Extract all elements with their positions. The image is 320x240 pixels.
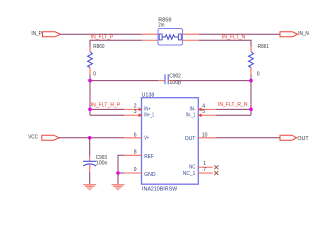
pin stub R859 right bottom: [183, 39, 200, 41]
svg-text:OUT: OUT: [185, 136, 196, 142]
junction pin2 branch: [88, 108, 92, 112]
resistor R860: [88, 44, 105, 78]
wire GND pin9 to gnd rail: [118, 172, 124, 174]
resistor R861: [249, 44, 270, 78]
svg-text:REF: REF: [144, 154, 154, 160]
port IN_N: [280, 31, 309, 37]
wire IN_P to R859 top sense (y=34): [61, 33, 142, 35]
svg-text:5: 5: [202, 109, 205, 115]
svg-text:IN_N: IN_N: [298, 31, 309, 37]
pin 1 stub (NC) + no-connect X: [198, 161, 218, 169]
port IN_P: [31, 31, 60, 37]
wire VCC to pin6: [59, 137, 124, 139]
svg-text:IN_P: IN_P: [31, 31, 42, 37]
wire R859 to IN_N port (y=34): [199, 33, 280, 35]
svg-text:0: 0: [257, 72, 260, 78]
ground (C903): [83, 184, 96, 190]
pin stub R859 right top: [183, 33, 200, 35]
svg-text:2m: 2m: [158, 23, 164, 29]
pin 5 stub (IN-_1): [198, 109, 216, 117]
wire C902 row left: [90, 80, 159, 82]
svg-text:3: 3: [134, 109, 137, 115]
pin 6 stub (V+): [124, 132, 141, 138]
svg-text:U138: U138: [142, 92, 155, 98]
svg-text:GND: GND: [144, 172, 156, 178]
resistor R859 (shunt, boxed): [158, 17, 183, 45]
svg-text:8: 8: [134, 150, 137, 156]
wire pin4 branch: [216, 108, 251, 110]
svg-text:9: 9: [134, 167, 137, 173]
junction R860/C902: [88, 79, 92, 83]
wire REF pin8 to gnd rail: [118, 155, 124, 173]
pin 7 stub (NC_1) + no-connect X: [198, 167, 218, 175]
wire R860 bottom to junction: [89, 75, 91, 81]
svg-text:10: 10: [202, 132, 208, 138]
capacitor C902: [159, 73, 181, 85]
svg-text:IN_FLT_P: IN_FLT_P: [91, 34, 114, 40]
svg-text:IN_FLT_N: IN_FLT_N: [222, 35, 246, 41]
wire pin5 row: [216, 114, 251, 116]
pin 3 stub (IN+_1): [124, 109, 142, 117]
wire right force line (y=40): [199, 40, 251, 47]
svg-text:C902: C902: [169, 73, 181, 79]
capacitor C903: [83, 155, 108, 172]
wire OUT pin10 to port: [216, 137, 280, 139]
pin 10 stub (OUT): [198, 132, 215, 138]
pin stub R859 left top: [142, 33, 158, 35]
wire C902 row right: [175, 80, 251, 82]
ground (REF/GND): [112, 184, 125, 190]
junction R861/C902: [249, 79, 253, 83]
svg-text:NC: NC: [189, 165, 195, 171]
junction REF/GND: [116, 171, 120, 175]
port OUT: [280, 135, 309, 142]
svg-text:100n: 100n: [96, 161, 108, 167]
wire rail down to ground: [117, 173, 119, 184]
pin 2 stub (IN+): [124, 104, 142, 112]
svg-text:V+: V+: [144, 136, 149, 142]
svg-text:IN_FLT_R_P: IN_FLT_R_P: [91, 103, 121, 109]
IC U138 INA210BIRSW current-sense amplifier: [142, 92, 199, 192]
wire pin3 row: [90, 114, 124, 116]
wire right vertical to pins 4,5: [250, 81, 252, 116]
svg-text:NC_1: NC_1: [183, 171, 196, 177]
pin 4 stub (IN-): [198, 104, 216, 112]
junction pin4 branch: [249, 108, 253, 112]
svg-text:7: 7: [203, 167, 206, 173]
svg-text:IN_FLT_R_N: IN_FLT_R_N: [218, 102, 248, 108]
svg-text:VCC: VCC: [28, 134, 38, 140]
wire C903 to ground: [89, 172, 91, 184]
svg-text:R861: R861: [258, 44, 269, 50]
svg-text:IN-_1: IN-_1: [186, 112, 195, 118]
wire VCC junction down to C903: [89, 138, 91, 157]
svg-text:0: 0: [93, 72, 96, 78]
svg-text:INA210BIRSW: INA210BIRSW: [142, 186, 177, 192]
svg-text:OUT: OUT: [297, 136, 308, 142]
svg-text:6: 6: [134, 132, 137, 138]
pin 8 stub (REF): [124, 150, 141, 156]
wire R861 bottom to junction: [250, 75, 252, 81]
svg-text:IN+_1: IN+_1: [144, 112, 154, 118]
pin stub R859 left bottom: [142, 39, 158, 41]
junction VCC/C903: [88, 136, 92, 140]
svg-text:R860: R860: [93, 44, 104, 50]
port VCC: [28, 134, 59, 140]
wire left force line (y=40): [90, 40, 142, 47]
pin 9 stub (GND): [124, 167, 141, 173]
wire left vertical to pins 2,3: [89, 81, 91, 116]
wire pin2 branch: [90, 108, 124, 110]
